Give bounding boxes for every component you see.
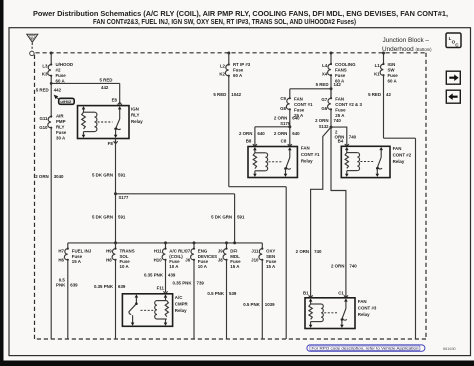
svg-text:Relay: Relay (301, 159, 313, 164)
svg-text:3040: 3040 (54, 174, 64, 179)
relay FAN CONT#3 (305, 298, 377, 329)
svg-text:(Bottom): (Bottom) (416, 47, 433, 52)
svg-text:740: 740 (334, 118, 342, 123)
wire 2 ORN 740 to C1 (FAN CONT#3 switch) (331, 127, 357, 297)
svg-text:740: 740 (314, 249, 322, 254)
svg-text:CONT #2: CONT #2 (393, 152, 412, 157)
svg-text:640: 640 (292, 116, 300, 121)
svg-text:60 A: 60 A (233, 73, 243, 78)
wire U/HOOD#2 fuse feed (50, 53, 52, 65)
svg-text:S179: S179 (280, 121, 290, 126)
svg-text:H10: H10 (154, 258, 163, 263)
svg-text:Fuse: Fuse (233, 68, 244, 73)
svg-text:G10: G10 (39, 125, 48, 130)
wire 0.5 PNK 1039 (243, 260, 275, 339)
svg-text:J7: J7 (185, 249, 190, 254)
svg-text:2 ORN: 2 ORN (35, 174, 48, 179)
svg-text:0.35 PNK: 0.35 PNK (144, 272, 164, 277)
fuse FAN CONT#1 25A (280, 96, 313, 118)
svg-text:60 A: 60 A (388, 78, 398, 83)
svg-text:IGN: IGN (388, 62, 396, 67)
svg-text:J9: J9 (218, 249, 223, 254)
svg-text:PNK: PNK (56, 283, 66, 288)
svg-text:H11: H11 (154, 249, 162, 254)
svg-text:740: 740 (349, 263, 357, 268)
svg-text:FAN: FAN (393, 146, 402, 151)
svg-text:661630: 661630 (443, 347, 456, 351)
svg-text:Junction Block –: Junction Block – (382, 37, 429, 44)
svg-text:2 ORN: 2 ORN (331, 263, 344, 268)
svg-text:RLY: RLY (131, 112, 139, 117)
svg-text:2 ORN: 2 ORN (274, 131, 287, 136)
svg-text:1039: 1039 (265, 302, 275, 307)
svg-text:H8: H8 (106, 258, 112, 263)
svg-text:H9: H9 (106, 249, 112, 254)
svg-text:FAN: FAN (301, 146, 310, 151)
svg-text:AIR: AIR (56, 114, 64, 119)
svg-text:C9: C9 (280, 96, 286, 101)
svg-text:5 RED: 5 RED (368, 92, 381, 97)
svg-text:J6: J6 (185, 258, 190, 263)
svg-text:Fuse: Fuse (335, 108, 346, 113)
fuse DFI MDL 15A (218, 243, 241, 269)
wire 5 RED 42 to bottom right (368, 75, 415, 339)
svg-text:591: 591 (118, 173, 126, 178)
svg-text:CONT #1: CONT #1 (294, 102, 313, 107)
svg-text:10 A: 10 A (120, 264, 130, 269)
coil terminal arrows (82, 106, 86, 109)
svg-text:10 A: 10 A (198, 264, 208, 269)
wire 0.5 PNK 539 (207, 260, 236, 339)
svg-text:S132: S132 (319, 124, 329, 129)
scan artifact left black bar (0, 0, 4, 366)
svg-text:Relay: Relay (175, 308, 187, 313)
svg-text:439: 439 (168, 272, 176, 277)
svg-text:2 ORN: 2 ORN (239, 131, 252, 136)
svg-text:591: 591 (118, 215, 126, 220)
actuator dashed (98, 121, 113, 123)
svg-text:740: 740 (349, 135, 357, 140)
svg-text:G8: G8 (280, 106, 286, 111)
svg-text:COOLING: COOLING (335, 62, 356, 67)
svg-text:5 RED: 5 RED (316, 82, 329, 87)
svg-text:FANS: FANS (335, 67, 347, 72)
svg-text:IGN: IGN (131, 106, 139, 111)
svg-text:2 ORN: 2 ORN (315, 118, 328, 123)
svg-text:RLY: RLY (56, 125, 64, 130)
svg-text:639: 639 (118, 284, 126, 289)
svg-text:G6: G6 (321, 106, 327, 111)
relay FAN CONT#2 (341, 146, 411, 178)
node branch 5 RED 442 (50, 82, 53, 85)
connector tag C100 (54, 95, 75, 105)
fuse U/HOOD#2 60A (42, 62, 73, 84)
resistor zigzag (82, 112, 86, 129)
svg-text:RT IP #3: RT IP #3 (233, 62, 251, 67)
svg-text:L3: L3 (42, 64, 48, 69)
fuse AIR PMP RLY 30A (39, 114, 67, 141)
svg-text:0.5 PNK: 0.5 PNK (207, 291, 224, 296)
wire 2 ORN 740 to S132 (315, 109, 341, 127)
relay A/C CMPR (122, 294, 188, 327)
svg-text:For RPO code description, refe: For RPO code description, refer to Vehic… (312, 346, 419, 351)
svg-text:Relay: Relay (358, 312, 370, 317)
svg-text:C1: C1 (338, 291, 344, 296)
actuator dashed (141, 309, 154, 311)
svg-text:F11: F11 (157, 285, 165, 290)
svg-text:Fuse: Fuse (388, 73, 399, 78)
wire 2 ORN 640 to C8 (274, 127, 300, 146)
svg-text:Fuse: Fuse (56, 130, 67, 135)
svg-text:5 DK GRN: 5 DK GRN (92, 215, 113, 220)
svg-text:42: 42 (386, 92, 391, 97)
svg-text:CMPR: CMPR (175, 301, 189, 306)
svg-text:H6: H6 (58, 258, 64, 263)
wire 5 RED 142 (316, 75, 342, 97)
nav button right arrow (446, 71, 460, 84)
wire 0.35 PNK 739 (172, 260, 204, 339)
svg-text:0.35 PNK: 0.35 PNK (172, 281, 192, 286)
svg-text:15 A: 15 A (230, 264, 240, 269)
svg-text:2 ORN: 2 ORN (274, 116, 287, 121)
svg-text:30 A: 30 A (56, 136, 66, 141)
svg-text:E8: E8 (112, 98, 118, 103)
svg-text:X4: X4 (322, 72, 328, 77)
svg-text:CONT #1: CONT #1 (301, 152, 320, 157)
svg-text:FAN CONT#2&3, FUEL INJ, IGN SW: FAN CONT#2&3, FUEL INJ, IGN SW, OXY SEN,… (93, 19, 356, 26)
svg-text:L1: L1 (375, 63, 381, 68)
svg-text:442: 442 (101, 85, 109, 90)
svg-text:5 RED: 5 RED (100, 78, 113, 83)
scan artifact bottom black bar (0, 361, 474, 366)
coil right side (164, 294, 168, 297)
splice S132 (319, 124, 333, 129)
switch (118, 106, 122, 109)
svg-text:J8: J8 (218, 258, 223, 263)
svg-text:539: 539 (229, 291, 237, 296)
svg-text:K3: K3 (42, 72, 48, 77)
svg-text:0.35 PNK: 0.35 PNK (94, 284, 114, 289)
wire branch to FAN CONT#1 fuse (290, 89, 331, 98)
svg-text:142: 142 (334, 82, 342, 87)
node top of U/HOOD#2 fuse (50, 52, 53, 55)
svg-text:0.5 PNK: 0.5 PNK (243, 302, 260, 307)
svg-text:639: 639 (70, 283, 78, 288)
svg-text:U/HOOD: U/HOOD (56, 62, 74, 67)
wire 0.35 PNK 439 to F11 (144, 260, 176, 294)
svg-text:B: B (31, 36, 33, 40)
wire 5 RED 442 branch to IGN relay E8 (51, 78, 120, 105)
fuse A/C RLY (COIL) 10A (154, 243, 187, 269)
svg-text:Relay: Relay (131, 119, 143, 124)
svg-text:B1: B1 (303, 291, 309, 296)
svg-text:CONT #3: CONT #3 (358, 305, 377, 310)
svg-text:Underhood: Underhood (382, 46, 414, 53)
svg-text:L4: L4 (322, 63, 328, 68)
node bus junctions (114, 241, 117, 244)
svg-text:442: 442 (54, 88, 62, 93)
svg-text:Fuse: Fuse (56, 73, 67, 78)
splice S177 (114, 192, 129, 200)
svg-text:591: 591 (237, 215, 245, 220)
nav button left arrow (446, 90, 460, 103)
fuse FUEL INJ 15A (58, 243, 91, 264)
wire 2 ORN 640 to S179 (274, 109, 300, 126)
svg-text:5 RED: 5 RED (36, 88, 49, 93)
svg-text:F8: F8 (108, 141, 114, 146)
svg-text:Relay: Relay (393, 159, 405, 164)
winding (95, 112, 97, 131)
svg-text:S177: S177 (119, 195, 129, 200)
svg-text:#2: #2 (56, 68, 61, 73)
svg-text:60 A: 60 A (56, 79, 66, 84)
fuse ENG DEVICES 10A (185, 243, 217, 269)
wire 2 ORN 740 to B1 (FAN CONT#3 coil) (296, 127, 331, 297)
wire 5 RED 1042 under FAN CONT#1 relay to bottom (213, 76, 286, 339)
svg-text:739: 739 (197, 281, 205, 286)
splice S179 (280, 121, 291, 128)
svg-text:2 ORN: 2 ORN (296, 249, 309, 254)
wire fuse feed bus (68, 242, 262, 244)
svg-text:640: 640 (292, 131, 300, 136)
svg-text:5 RED: 5 RED (213, 92, 226, 97)
fuse RT IP#3 60A (219, 52, 250, 79)
svg-text:A/C: A/C (175, 295, 183, 300)
svg-text:5 DK GRN: 5 DK GRN (211, 215, 232, 220)
wire 2 ORN 3040 left column to bottom (35, 128, 64, 339)
wire 0.5 PNK 639 (56, 260, 78, 339)
svg-text:H7: H7 (58, 249, 64, 254)
switch left side (135, 294, 139, 297)
svg-text:FAN: FAN (358, 299, 367, 304)
svg-text:5 DK GRN: 5 DK GRN (92, 173, 113, 178)
wire F8 output 5 DK GRN 591 (92, 139, 126, 243)
svg-text:G11: G11 (39, 116, 48, 121)
wire S177 branch right 5 DK GRN 591 (116, 194, 245, 243)
svg-text:u/H#2: u/H#2 (60, 99, 72, 104)
svg-text:FAN: FAN (294, 97, 303, 102)
svg-text:G7: G7 (321, 97, 327, 102)
LOC icon box (446, 33, 461, 48)
svg-text:PMP: PMP (56, 119, 66, 124)
fuse TRANS SOL 10A (106, 243, 135, 269)
svg-text:1042: 1042 (231, 92, 241, 97)
svg-text:FAN: FAN (335, 97, 344, 102)
coil loop (84, 111, 95, 113)
svg-text:K2: K2 (219, 72, 225, 77)
svg-text:K1: K1 (374, 72, 380, 77)
svg-text:Fuse: Fuse (294, 108, 305, 113)
svg-text:L2: L2 (220, 64, 226, 69)
wire 2 ORN 640 branch to B8 (239, 127, 290, 146)
fuse IGN SW 60A (374, 52, 398, 84)
svg-text:B8: B8 (246, 138, 252, 143)
RPO note pill (307, 345, 425, 351)
fuse OXY SEN 15A (251, 243, 277, 269)
svg-text:Power Distribution Schematics: Power Distribution Schematics (A/C RLY (… (33, 11, 448, 18)
svg-text:SW: SW (388, 67, 396, 72)
svg-text:15 A: 15 A (266, 264, 276, 269)
wire 0.35 PNK 639 (94, 260, 126, 339)
svg-text:Fuse: Fuse (335, 73, 346, 78)
svg-text:15 A: 15 A (72, 259, 82, 264)
op-amp none / relay IGN RLY U-relay box (78, 98, 144, 139)
svg-text:B4: B4 (338, 139, 344, 144)
relay FAN CONT#1 (248, 146, 320, 178)
connector circle at dashed border origin (30, 51, 34, 55)
svg-text:CONT #2 & 3: CONT #2 & 3 (335, 102, 362, 107)
svg-text:10 A: 10 A (169, 264, 179, 269)
grid reference triangle B (27, 34, 38, 50)
junction block dashed border (35, 53, 427, 339)
node cooling fans branch (330, 87, 333, 90)
wire 2 ORN 740 branch to B4 (331, 127, 357, 146)
wire 5 RED 442 vertical (36, 76, 62, 117)
svg-text:640: 640 (257, 131, 265, 136)
fuse FAN CONT#2&3 25A (321, 89, 362, 118)
svg-text:C8: C8 (281, 138, 287, 143)
svg-text:J10: J10 (251, 258, 259, 263)
svg-text:J11: J11 (251, 249, 259, 254)
fuse COOLING FANS 60A (322, 52, 356, 84)
